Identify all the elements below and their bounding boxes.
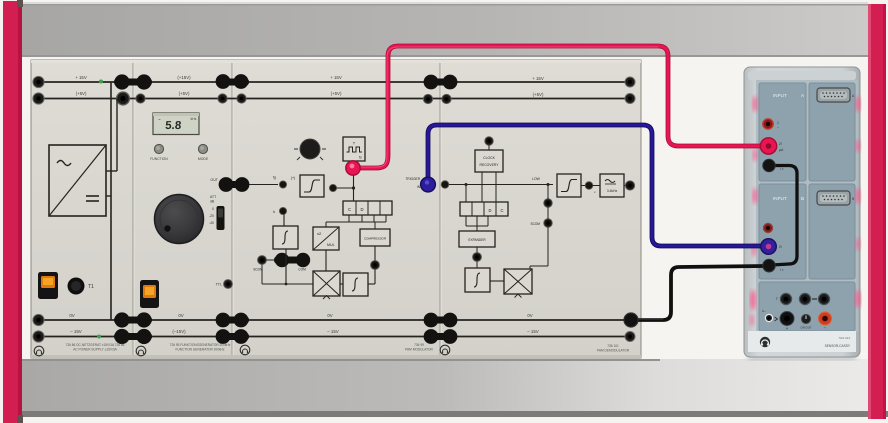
wire k to integrator (283, 215, 285, 227)
socket TTL output (216, 280, 233, 289)
svg-text:-20: -20 (209, 214, 214, 218)
knob level modulator (294, 139, 326, 160)
node -15V bottom rail (37, 336, 631, 338)
label 0V panel C (327, 313, 332, 318)
wire cable black jumper INPUT A to INPUT B ground (771, 166, 797, 266)
label INPUT B (773, 196, 804, 201)
svg-text:EXPANDER: EXPANDER (468, 238, 486, 242)
svg-text:+ 15V: + 15V (75, 75, 87, 80)
socket 0V left end (33, 314, 44, 325)
label panel D part number text (597, 344, 630, 353)
instrument sub-panel INPUT B left (759, 184, 806, 279)
instrument sub-panel INPUT B right (809, 184, 855, 279)
svg-text:(+5V): (+5V) (331, 91, 342, 96)
socket source red (819, 312, 832, 329)
svg-text:524 013: 524 013 (839, 336, 850, 340)
ground panel D protective earth (440, 345, 450, 355)
label INPUT A (773, 93, 805, 98)
instrument Sensor-CASSY body (744, 67, 860, 357)
bridging plug -15V B/C (216, 329, 249, 344)
label (+5V) panel B (179, 91, 190, 96)
plug banana red at modulator (346, 161, 360, 175)
socket SCOM demodulator (530, 219, 552, 227)
connector D-sub INPUT A (817, 88, 855, 102)
LED green +15V rail (99, 80, 103, 84)
svg-text:(+5V): (+5V) (533, 92, 544, 97)
wire sample line to PAM switch (352, 161, 355, 201)
wire modulator input (249, 176, 278, 185)
button FUNCTION (150, 144, 168, 161)
bridging plug -15V A/B (114, 329, 152, 344)
svg-text:736 99: 736 99 (414, 343, 424, 347)
wire cable black 0V to INPUT B ground (631, 266, 765, 320)
socket +5V right end (625, 94, 635, 104)
wire SCOM links (262, 260, 286, 284)
socket limiter demod output (585, 182, 596, 194)
bridging plug +15V A/B (114, 74, 152, 89)
right crimson frame bar (868, 4, 886, 419)
node +5V top rail (37, 98, 631, 100)
svg-text:COM: COM (298, 268, 306, 272)
switch S1 mains rocker with orange lamp (38, 272, 58, 299)
svg-text:+: + (824, 326, 826, 330)
LED glow rail left (749, 96, 757, 326)
svg-text:AC POWER SUPPLY ±15V/3A: AC POWER SUPPLY ±15V/3A (73, 348, 117, 352)
instrument sub-panel INPUT A right (809, 83, 855, 181)
plug banana blue at INPUT B (761, 239, 777, 255)
svg-text:OUT: OUT (210, 178, 218, 182)
connector D-sub INPUT B (817, 191, 855, 205)
svg-text:2!: 2! (779, 245, 782, 249)
wire demod right bus (530, 185, 548, 270)
plug banana blue at trigger (421, 177, 436, 192)
bridging plug 0V A/B (114, 312, 152, 327)
svg-text:MODE: MODE (198, 157, 209, 161)
experiment panel backing (4 panels) (31, 60, 641, 358)
left crimson frame bar (3, 0, 23, 423)
socket pair +5V B/C (218, 94, 246, 103)
wire power supply vertical bus (106, 82, 117, 320)
svg-text:Γ: Γ (776, 297, 778, 301)
label 0V panel B (178, 313, 183, 318)
svg-text:I ×: I × (780, 167, 784, 171)
label panel B part number text (170, 343, 231, 352)
svg-text:1: 1 (777, 121, 779, 125)
svg-text:(+5V): (+5V) (179, 91, 190, 96)
svg-text:– 15V: – 15V (527, 329, 539, 334)
switch ATT attenuator slide (209, 195, 225, 230)
svg-text:PAM MODULATOR: PAM MODULATOR (405, 348, 433, 352)
socket modulator input (+) (279, 176, 295, 188)
label panel C part number text (405, 343, 433, 352)
svg-text:726 86 DC-NETZGERAT ±15V/3A: 726 86 DC-NETZGERAT ±15V/3A 726 86 (66, 343, 125, 347)
wire filter to output socket (624, 185, 626, 187)
label -15V panel C (327, 329, 339, 334)
socket aux small (762, 309, 778, 322)
socket k input (273, 207, 286, 214)
socket pair +5V A/B (117, 92, 145, 105)
block sample-hold register demodulator (460, 202, 508, 216)
svg-text:CLOCK: CLOCK (483, 156, 495, 160)
wire sample-hold to compressor bus (326, 215, 386, 229)
socket +15V left end (33, 76, 44, 87)
label +15V panel D (532, 76, 544, 81)
svg-text:(+): (+) (291, 176, 296, 180)
svg-text:736 101: 736 101 (607, 344, 619, 348)
bottom gray rail bar (20, 359, 888, 423)
label instrument model text (825, 336, 851, 348)
socket clock recovery top (485, 137, 493, 145)
svg-text:0: 0 (212, 207, 214, 211)
block integrator modulator (273, 226, 298, 249)
svg-text:– 15V: – 15V (327, 329, 339, 334)
svg-text:⏚: ⏚ (785, 325, 788, 330)
block expander (459, 231, 495, 247)
node 0V bottom rail (37, 319, 631, 321)
label panel A part number text (66, 343, 125, 352)
function generator display LCD (153, 113, 199, 135)
svg-text:0V: 0V (327, 313, 332, 318)
block limiter demodulator (557, 174, 581, 197)
svg-text:(–15V): (–15V) (172, 329, 186, 334)
svg-text:kHz: kHz (191, 117, 197, 121)
plug banana black at INPUT B ground (763, 259, 775, 271)
bridging plug -15V C/D (424, 329, 458, 344)
power supply U1 AC/DC converter symbol (49, 145, 106, 216)
block multiplier modulator (313, 271, 340, 299)
bridging plug +15V B/C (216, 74, 249, 89)
svg-text:B: B (801, 196, 804, 201)
LED green -15V rail (97, 335, 101, 339)
svg-text:FUNCTION GENERATOR 200kHz: FUNCTION GENERATOR 200kHz (176, 348, 225, 352)
label (+15V) panel B (177, 75, 191, 80)
block sample-hold register modulator (343, 201, 392, 215)
svg-text:C: C (500, 208, 503, 213)
socket demod mid (544, 199, 552, 207)
svg-text:INPUT: INPUT (773, 196, 787, 201)
svg-text:0V: 0V (69, 313, 74, 318)
svg-text:RECOVERY: RECOVERY (480, 163, 500, 167)
svg-text:– 15V: – 15V (70, 329, 82, 334)
svg-text:k: k (273, 210, 275, 214)
svg-text:5.8: 5.8 (165, 120, 182, 132)
wire cable red modulator output to INPUT A (353, 46, 762, 168)
bridging plug SCOM-COM (274, 253, 310, 267)
socket expander output (473, 253, 482, 262)
wire compressor to output socket (368, 246, 375, 284)
button T1 (68, 278, 95, 295)
socket -15V left end (33, 331, 44, 342)
socket source output black large (780, 312, 794, 331)
svg-text:SCOM: SCOM (530, 222, 540, 226)
ground panel B protective earth (136, 346, 146, 356)
ground panel A protective earth (34, 346, 44, 356)
svg-text:D: D (488, 208, 491, 213)
block sample pulse generator fs (343, 137, 365, 161)
svg-text:-40: -40 (209, 221, 214, 225)
block clock recovery (475, 150, 503, 172)
socket input A ground black (763, 160, 784, 172)
svg-text:T1: T1 (88, 284, 94, 290)
knob source adjust (801, 314, 812, 329)
svg-text:0V: 0V (527, 313, 532, 318)
socket source terminal 1 (776, 293, 791, 304)
bridging plug OUT B/C signal (219, 177, 250, 192)
svg-text:FUNCTION: FUNCTION (150, 157, 168, 161)
label +15V panel C (330, 75, 342, 80)
svg-text:fs: fs (359, 156, 362, 160)
svg-text:2!: 2! (779, 142, 782, 146)
svg-text:ATT: ATT (210, 195, 216, 199)
socket demod output (625, 181, 634, 190)
block compressor (360, 229, 390, 246)
instrument sub-panel source bottom (759, 282, 855, 331)
label (+5V) panel D (533, 92, 544, 97)
socket source terminal 2 (799, 293, 810, 304)
block x2 MUL modulator (313, 227, 339, 250)
label socket 2 input A (779, 142, 784, 152)
socket +15V right end (625, 77, 635, 87)
socket -15V right end (625, 332, 635, 342)
wire limiter to sampler (337, 187, 354, 189)
svg-text:fg: fg (273, 176, 276, 180)
knob frequency function generator (155, 195, 204, 244)
wire register to expander (466, 216, 488, 231)
block integrator demodulator (465, 268, 490, 292)
svg-text:(+15V): (+15V) (177, 75, 191, 80)
svg-text:(+5V): (+5V) (76, 91, 87, 96)
node +15V top rail (37, 81, 631, 83)
svg-text:U~: U~ (762, 309, 766, 313)
instrument sub-panel INPUT A left (759, 83, 806, 181)
plug banana black at 0V rail (624, 313, 638, 327)
label socket 2 input B (779, 245, 782, 249)
socket pair +5V C/D (423, 94, 451, 103)
label TRIGGER IN (405, 177, 420, 189)
label -15V panel D (527, 329, 539, 334)
wire MUL to multiplier (325, 250, 327, 271)
top gray rail bar (22, 2, 868, 57)
ground panel C protective earth (240, 345, 250, 355)
svg-text:PAM DEMODULATOR: PAM DEMODULATOR (597, 349, 630, 353)
block lowpass filter 3.4kHz (600, 174, 624, 197)
svg-text:I ×: I × (780, 268, 784, 272)
wire limiter to filter (581, 185, 600, 187)
label +15V panel A (75, 75, 87, 80)
label (+5V) panel C (331, 91, 342, 96)
wire integrator to multiplier (285, 249, 313, 285)
svg-text:3.4kHz: 3.4kHz (607, 189, 618, 193)
svg-text:LOW: LOW (532, 177, 541, 181)
LED glow rail right (855, 96, 861, 308)
socket source terminal 3 (812, 293, 830, 304)
wire clock recovery connections (466, 145, 496, 202)
wire demodulator signal line (449, 183, 553, 186)
svg-text:INPUT: INPUT (773, 93, 787, 98)
socket SCOM modulator (253, 256, 306, 272)
label 0V panel D (527, 313, 532, 318)
socket limiter output (329, 184, 336, 191)
label -15V panel A (70, 329, 82, 334)
svg-text:TTL: TTL (216, 283, 222, 287)
socket trigger in (441, 181, 449, 189)
svg-text:μA: μA (779, 148, 784, 152)
button MODE (198, 144, 209, 161)
label LOW (532, 177, 541, 181)
block multiplier demodulator (504, 269, 532, 298)
bridging plug 0V B/C (216, 313, 249, 328)
svg-text:TRIGGER: TRIGGER (405, 177, 420, 181)
plug banana red at INPUT A (760, 138, 776, 154)
plug banana black at INPUT A ground (763, 159, 775, 171)
bridging plug +15V C/D (424, 75, 458, 90)
socket +5V left end (33, 93, 44, 104)
wire cable blue trigger to INPUT B (428, 125, 762, 246)
label OUT (210, 178, 218, 182)
label (-15V) panel B (172, 329, 186, 334)
socket input B channel 1 red (763, 223, 772, 232)
wire integrator to multiplier demod (490, 280, 504, 282)
logo LD didactic (760, 337, 770, 347)
shadow under instrument (748, 352, 856, 360)
svg-text:ON OUT: ON OUT (801, 326, 812, 330)
svg-text:+ 15V: + 15V (532, 76, 544, 81)
instrument bottom strip (748, 331, 856, 352)
svg-text:~: ~ (777, 126, 779, 130)
svg-text:COMPRESSOR: COMPRESSOR (364, 237, 387, 241)
socket PAM output (371, 261, 380, 270)
svg-text:MUL: MUL (327, 243, 335, 247)
socket input A channel 1 red (763, 119, 779, 130)
svg-text:+ 15V: + 15V (330, 75, 342, 80)
wire expander to integrator (476, 247, 478, 268)
socket input B ground black (763, 260, 784, 272)
label (+5V) panel A (76, 91, 87, 96)
svg-text:dB: dB (210, 200, 215, 204)
svg-text:SENSOR-CASSY: SENSOR-CASSY (825, 344, 851, 348)
svg-text:D: D (360, 207, 363, 212)
switch S2 generator rocker with orange lamp (140, 280, 159, 308)
svg-text:726 95 FUNKTIONSGENERATOR 20: 726 95 FUNKTIONSGENERATOR 200kHz (170, 343, 231, 347)
bridging plug 0V C/D (424, 313, 458, 328)
svg-text:C: C (348, 207, 351, 212)
block integrator 2 modulator (343, 273, 368, 296)
svg-text:0V: 0V (178, 313, 183, 318)
label 0V panel A (69, 313, 74, 318)
wire multiplier to integrator2 (340, 283, 343, 285)
block limiter S-curve modulator (300, 175, 324, 197)
svg-text:~: ~ (158, 117, 161, 122)
